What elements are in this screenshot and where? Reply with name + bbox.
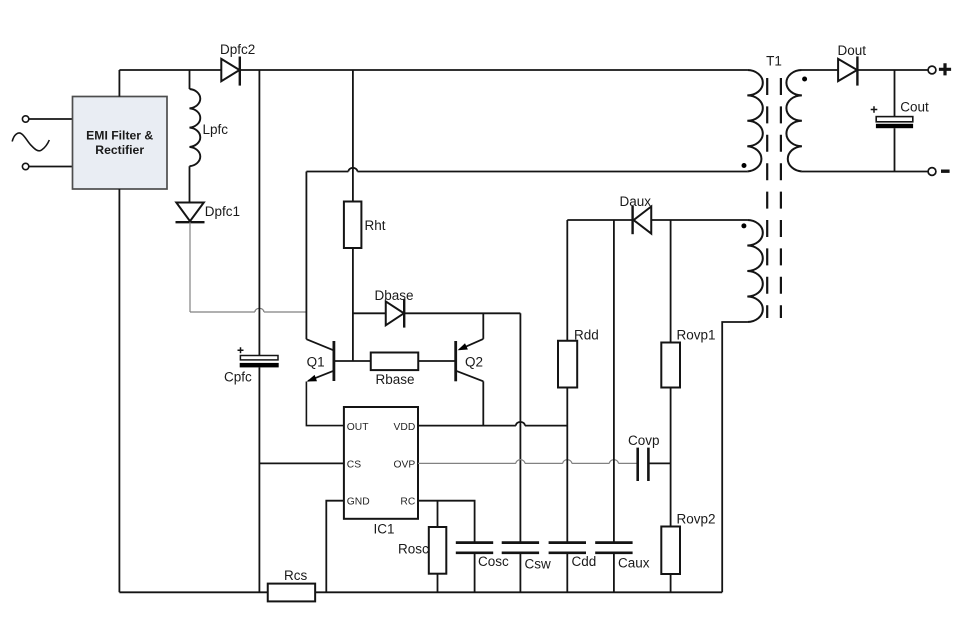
svg-text:Dpfc1: Dpfc1	[205, 204, 240, 219]
wire Dout to plus terminal	[857, 69, 928, 71]
resistor Rcs	[268, 584, 315, 602]
wire Cpfc branch upper	[258, 70, 260, 356]
secondary dot	[802, 77, 807, 82]
wire Rdd branch top	[566, 220, 568, 341]
wire bottom rail left	[119, 591, 267, 593]
svg-text:GND: GND	[347, 497, 370, 508]
inductor Lpfc	[190, 89, 201, 166]
wire Csw branch vertical	[519, 313, 521, 542]
wire Lpfc to Dpfc1	[189, 166, 191, 202]
wire aux winding return	[722, 322, 747, 592]
wire Rbase to Q2 base	[418, 360, 455, 362]
ac sine symbol	[12, 133, 49, 151]
wire Lpfc top stub	[189, 70, 191, 89]
wire Cosc bottom	[474, 553, 476, 593]
wire Rovp1 bottom to Rovp2	[670, 388, 672, 527]
svg-text:RC: RC	[400, 497, 415, 508]
wire primary return with hop over Rht line	[306, 168, 747, 172]
wire Dbase cathode to corner	[404, 312, 520, 314]
wire Cout bottom	[894, 128, 896, 171]
svg-text:EMI Filter &: EMI Filter &	[86, 129, 153, 143]
wire Csw bottom	[519, 553, 521, 593]
wire left rail	[118, 189, 120, 592]
svg-text:OVP: OVP	[394, 460, 416, 471]
svg-text:Caux: Caux	[618, 555, 650, 570]
wire Q1 base to Rbase	[334, 360, 371, 362]
capacitor Cdd	[549, 543, 586, 553]
svg-text:VDD: VDD	[394, 422, 416, 433]
svg-text:Dout: Dout	[838, 43, 867, 58]
wire GND pin	[326, 501, 344, 593]
wire Q2 collector to VDD rail	[482, 381, 484, 425]
wire top rail left segment	[119, 69, 221, 71]
aux dot	[741, 223, 746, 228]
capacitor Caux	[595, 543, 632, 553]
wire aux rail left	[567, 219, 632, 221]
wire VDD rail with hop over Csw line	[418, 422, 567, 426]
resistor Rbase	[371, 353, 419, 371]
EMI Filter & Rectifier block	[73, 97, 168, 190]
svg-text:Dpfc2: Dpfc2	[220, 42, 255, 57]
wire Q1 collector riser	[305, 172, 307, 340]
svg-text:Rdd: Rdd	[574, 328, 599, 343]
wire RC pin to Cosc	[418, 501, 475, 543]
svg-text:Covp: Covp	[628, 433, 660, 448]
capacitor Cout	[871, 106, 913, 128]
capacitor Covp	[638, 448, 649, 481]
svg-text:Cpfc: Cpfc	[224, 369, 252, 384]
capacitor Csw	[502, 543, 539, 553]
svg-text:Rovp2: Rovp2	[677, 512, 716, 527]
resistor Rovp2	[661, 527, 680, 575]
svg-text:Rht: Rht	[365, 218, 386, 233]
wire top rail right segment	[240, 69, 747, 71]
diode Dpfc1	[176, 203, 205, 223]
wire Cpfc lower to bottom rail	[258, 367, 260, 592]
ac source terminal bottom	[22, 163, 28, 169]
wire EMI top to top rail	[118, 70, 120, 97]
transformer T1 secondary winding	[786, 70, 802, 172]
wire Q1 emitter to OUT pin	[306, 382, 344, 426]
wire Rosc branch	[437, 501, 439, 527]
resistor Rovp1	[661, 343, 680, 388]
wire OVP net with hops (gray)	[418, 460, 637, 464]
wire Dpfc1 to pfc node (gray)	[189, 222, 191, 312]
wire Rovp2 bottom	[670, 574, 672, 592]
svg-text:Rovp1: Rovp1	[677, 328, 716, 343]
output minus sign	[941, 169, 950, 172]
capacitor Cosc	[456, 543, 493, 553]
wire Rdd bottom to Cdd	[566, 388, 568, 543]
svg-text:T1: T1	[766, 54, 782, 69]
svg-text:Q2: Q2	[465, 354, 483, 369]
output plus sign	[939, 63, 951, 75]
svg-text:Q1: Q1	[307, 354, 325, 369]
svg-text:IC1: IC1	[374, 522, 395, 537]
transistor Q1	[306, 339, 334, 381]
resistor Rdd	[558, 341, 577, 388]
svg-text:Dbase: Dbase	[375, 288, 414, 303]
resistor Rosc	[429, 527, 447, 574]
wire ac top lead	[29, 118, 73, 120]
wire pfc node horizontal with hop over Cpfc line (gray)	[190, 308, 306, 312]
wire CS pin	[259, 462, 344, 464]
wire secondary top to Dout	[802, 69, 838, 71]
wire bottom rail right	[315, 591, 722, 593]
diode Daux	[633, 206, 652, 234]
wire Rovp1 top	[670, 220, 672, 343]
wire Rht branch top	[352, 70, 354, 202]
svg-text:CS: CS	[347, 460, 361, 471]
transformer T1 aux winding	[747, 220, 763, 322]
wire Cout branch top	[894, 70, 896, 117]
ac source terminal top	[22, 116, 28, 122]
wire Caux branch	[613, 220, 615, 543]
svg-text:Csw: Csw	[525, 556, 551, 571]
diode Dpfc2	[221, 57, 240, 86]
svg-text:Rcs: Rcs	[284, 568, 307, 583]
IC1 block	[344, 407, 418, 519]
svg-text:Rectifier: Rectifier	[95, 143, 144, 157]
wire Cdd bottom	[566, 553, 568, 593]
diode Dout	[838, 56, 857, 85]
svg-text:OUT: OUT	[347, 422, 369, 433]
svg-text:Cout: Cout	[900, 100, 929, 115]
primary dot	[742, 163, 747, 168]
diode Dbase	[386, 299, 404, 328]
wire Dbase anode	[353, 312, 386, 314]
resistor Rht	[344, 202, 362, 249]
capacitor Cpfc	[238, 347, 279, 367]
transformer T1 primary winding	[747, 70, 763, 172]
svg-text:Daux: Daux	[620, 194, 652, 209]
output terminal minus	[928, 168, 936, 176]
svg-text:Lpfc: Lpfc	[203, 122, 229, 137]
transformer T1 core	[767, 78, 781, 318]
svg-text:Rbase: Rbase	[376, 372, 415, 387]
wire Covp right plate to Rovp node	[648, 462, 670, 464]
output terminal plus	[928, 66, 936, 74]
svg-text:Cdd: Cdd	[572, 554, 597, 569]
wire Caux bottom	[613, 553, 615, 593]
svg-text:Cosc: Cosc	[478, 554, 509, 569]
wire secondary bottom to minus terminal	[802, 171, 928, 173]
wire Rht bottom to Q1 base	[352, 248, 354, 361]
wire aux rail right	[651, 219, 747, 221]
wire Rosc bottom	[437, 574, 439, 593]
wire ac bottom lead	[29, 166, 73, 168]
svg-text:Rosc: Rosc	[398, 541, 429, 556]
transistor Q2	[456, 313, 484, 381]
